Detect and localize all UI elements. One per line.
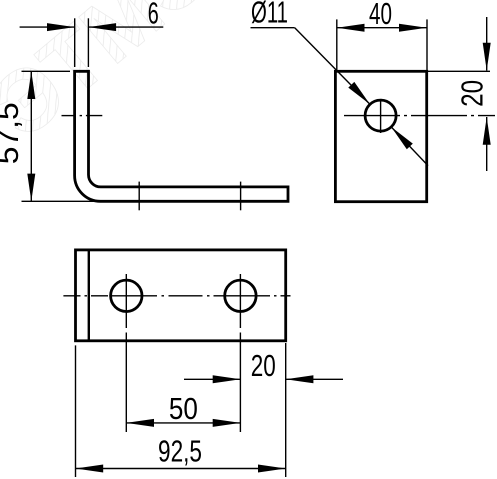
dimension 40: extension lines	[337, 19, 427, 70]
top view: right hole	[225, 280, 256, 311]
dimension 6: dimension line with outside arrows	[20, 23, 164, 31]
side view: L-bracket outline	[75, 71, 288, 201]
watermark ETM top-left	[0, 0, 229, 157]
dimension 57,5: dimension line with arrows	[27, 71, 35, 201]
end view: rectangle outline	[335, 71, 426, 201]
svg-text:20: 20	[455, 80, 490, 107]
svg-text:57,5: 57,5	[0, 102, 25, 164]
dimension 20 bottom: dimension line with outside arrows	[184, 375, 343, 383]
svg-text:40: 40	[369, 0, 392, 31]
top view: left hole vertical center line	[125, 274, 127, 432]
svg-text:92,5: 92,5	[158, 434, 202, 469]
top view: bend line	[88, 250, 90, 341]
dimension 40: dimension line with arrows	[337, 24, 427, 32]
top view: horizontal center line	[63, 295, 290, 297]
dimension 20 right: extension line	[427, 70, 490, 72]
side view: vertical-leg hole center line	[62, 115, 103, 117]
end view: hole circle	[365, 100, 396, 131]
svg-text:Ø11: Ø11	[251, 0, 288, 30]
dimension 57,5: extension lines	[22, 71, 100, 201]
dimension 6: extension lines	[75, 18, 89, 67]
side view: left hole tick on horizontal leg	[138, 182, 140, 211]
svg-text:20: 20	[251, 348, 276, 383]
dimension 92,5: dimension line with arrows	[76, 465, 286, 473]
extension line: right edge of plate	[285, 343, 287, 477]
side view: right hole tick on horizontal leg	[240, 182, 242, 211]
dimension 50: dimension line with arrows	[126, 419, 240, 427]
svg-text:50: 50	[169, 391, 198, 426]
dimension 20 right: dimension line with outside arrows	[483, 17, 491, 171]
extension line: left edge of plate	[75, 345, 77, 477]
end view: hole vertical center line	[380, 99, 382, 133]
end view: hole horizontal center line	[344, 115, 495, 117]
top view: right hole vertical center line	[239, 274, 241, 432]
hole callout Ø11: leader line with arrows	[251, 28, 429, 166]
top view: left hole	[111, 280, 142, 311]
top view: plate rectangle	[76, 250, 286, 341]
svg-text:6: 6	[148, 0, 159, 30]
